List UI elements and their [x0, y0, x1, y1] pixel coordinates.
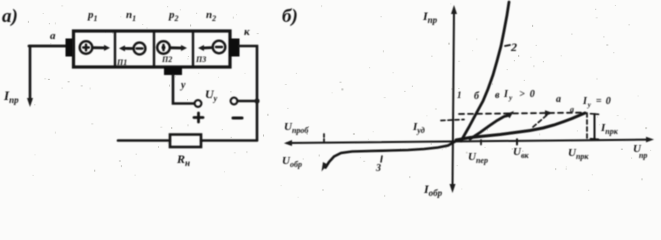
scan speckle noise	[28, 3, 651, 197]
svg-text:1: 1	[457, 90, 462, 100]
wire anode lead horizontal	[29, 45, 67, 48]
svg-text:Uпр: Uпр	[633, 143, 647, 160]
svg-text:П3: П3	[195, 55, 206, 64]
axis tick U_пер	[480, 140, 482, 145]
svg-text:б: б	[474, 91, 480, 102]
svg-text:Iуд: Iуд	[412, 121, 425, 135]
wire gate lead	[173, 75, 194, 104]
junction node dot	[254, 98, 259, 103]
wire cathode lead	[239, 46, 257, 140]
svg-text:Uпроб: Uпроб	[284, 121, 309, 135]
svg-text:в: в	[495, 90, 500, 101]
svg-text:p1: p1	[87, 9, 98, 23]
svg-text:к: к	[244, 26, 250, 38]
svg-text:Iобр: Iобр	[423, 182, 443, 198]
svg-text:2: 2	[510, 40, 517, 54]
svg-text:у: у	[180, 80, 186, 91]
gate contact electrode	[164, 67, 182, 75]
svg-text:Iу > 0: Iу > 0	[503, 89, 536, 102]
dashed jump arrow to switching line	[533, 115, 547, 127]
dashed vertical at U_прк	[586, 113, 588, 140]
svg-text:б): б)	[282, 6, 298, 27]
svg-text:а: а	[50, 30, 56, 42]
electron carrier in n1	[119, 43, 145, 55]
wire bottom right segment	[201, 139, 257, 142]
svg-text:а): а)	[2, 6, 18, 27]
thyristor p-n-p-n body box	[74, 31, 231, 67]
anode contact electrode	[66, 39, 76, 57]
gate terminal plus	[195, 100, 202, 107]
junction divider П2	[153, 31, 155, 67]
hole carrier in p1	[80, 41, 110, 54]
dashed switching line	[459, 113, 584, 114]
label 2	[505, 45, 510, 46]
svg-text:Iпрк: Iпрк	[600, 122, 619, 136]
junction divider П1	[114, 31, 116, 67]
wire anode down lead with current arrow	[29, 46, 32, 99]
curve 2 on-state	[461, 2, 509, 141]
svg-text:а: а	[570, 105, 574, 114]
svg-text:3: 3	[375, 163, 381, 174]
load resistor R_н	[170, 135, 201, 148]
svg-text:n1: n1	[126, 9, 136, 23]
U axis (horizontal)	[287, 140, 650, 143]
cathode contact electrode	[230, 39, 240, 57]
svg-text:Uпрк: Uпрк	[568, 147, 589, 161]
bracket I_прк	[594, 114, 596, 139]
svg-text:Iпр: Iпр	[3, 88, 19, 105]
hole carrier in p2	[157, 41, 187, 54]
svg-text:Iпр: Iпр	[422, 9, 438, 25]
svg-text:p2: p2	[168, 9, 179, 23]
svg-text:Iу = 0: Iу = 0	[582, 96, 612, 109]
svg-text:П1: П1	[116, 58, 127, 67]
svg-text:Uобр: Uобр	[282, 155, 302, 169]
svg-text:Rн: Rн	[176, 152, 190, 168]
svg-text:а: а	[556, 94, 561, 105]
svg-text:n2: n2	[206, 9, 216, 23]
svg-text:Uпер: Uпер	[468, 151, 488, 165]
label 3 on reverse curve	[381, 156, 382, 162]
off-state curve I_у=0	[456, 113, 585, 140]
electron carrier in n2	[198, 41, 225, 54]
svg-text:П2: П2	[161, 55, 172, 64]
gate return terminal minus	[231, 98, 238, 105]
svg-text:Uвк: Uвк	[513, 146, 530, 160]
axis tick U_вк	[516, 139, 518, 144]
reverse branch curve with breakdown arrow	[326, 141, 457, 168]
I_уд level dashes	[441, 120, 464, 121]
wire minus terminal to cathode lead	[237, 100, 257, 102]
dashed tick at U_проб	[323, 134, 325, 142]
wire bottom left segment	[118, 139, 170, 142]
svg-text:Uу: Uу	[205, 87, 218, 103]
I axis (vertical)	[453, 9, 455, 189]
junction divider П3	[192, 31, 194, 67]
gated curve I_у>0 with arrow	[470, 116, 508, 140]
